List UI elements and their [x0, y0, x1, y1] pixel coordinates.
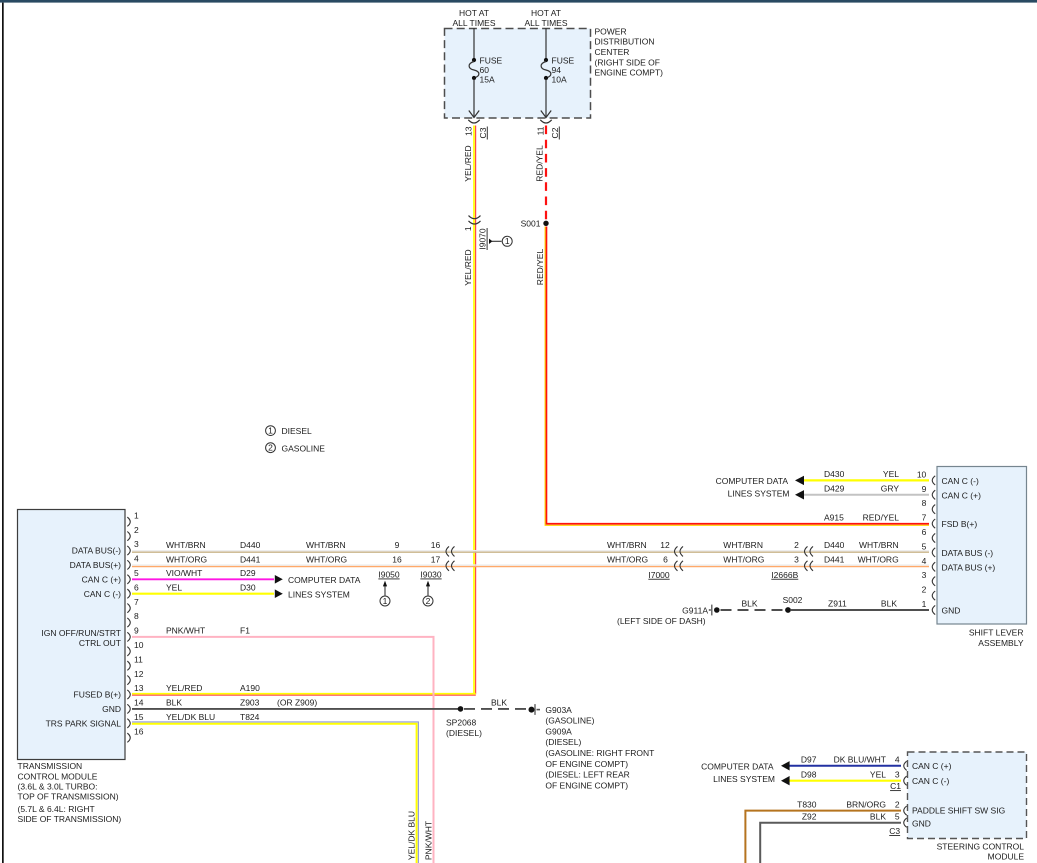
- svg-text:1: 1: [505, 236, 510, 246]
- svg-text:8: 8: [922, 498, 927, 508]
- arrow computer data lines (pin9): [795, 490, 804, 499]
- TCM pin 5 connector: [127, 575, 130, 584]
- svg-text:3: 3: [895, 770, 900, 780]
- svg-text:CAN C (-): CAN C (-): [84, 589, 121, 599]
- svg-text:TRS PARK SIGNAL: TRS PARK SIGNAL: [46, 718, 122, 728]
- TCM pin 11 connector: [127, 661, 130, 670]
- svg-text:94: 94: [552, 65, 562, 75]
- svg-text:WHT/BRN: WHT/BRN: [607, 540, 647, 550]
- wire BLK Z911 S002 to shift lever pin1 GND: [791, 609, 929, 611]
- svg-text:6: 6: [663, 555, 668, 565]
- arrow computer data lines (steering pin4): [781, 761, 790, 770]
- svg-text:15: 15: [134, 712, 144, 722]
- svg-text:WHT/BRN: WHT/BRN: [306, 540, 346, 550]
- svg-text:10: 10: [917, 469, 927, 479]
- svg-text:FUSE: FUSE: [552, 55, 575, 65]
- svg-text:DISTRIBUTION: DISTRIBUTION: [595, 37, 655, 47]
- svg-text:SP2068: SP2068: [446, 718, 477, 728]
- TCM pin 2 connector: [127, 532, 130, 541]
- svg-text:PNK/WHT: PNK/WHT: [166, 626, 205, 636]
- svg-text:ENGINE COMPT): ENGINE COMPT): [595, 68, 664, 78]
- svg-text:10: 10: [134, 640, 144, 650]
- svg-text:17: 17: [431, 555, 441, 565]
- svg-text:LINES SYSTEM: LINES SYSTEM: [713, 774, 775, 784]
- svg-text:2: 2: [426, 596, 431, 606]
- wire: fuse 94 output with arrow into box edge: [545, 79, 547, 117]
- svg-text:12: 12: [134, 669, 144, 679]
- svg-text:OF ENGINE COMPT): OF ENGINE COMPT): [545, 780, 628, 790]
- TCM pin 4 connector: [127, 560, 130, 569]
- power distribution center box: [445, 29, 591, 119]
- svg-text:CTRL OUT: CTRL OUT: [79, 638, 121, 648]
- svg-text:(RIGHT SIDE OF: (RIGHT SIDE OF: [595, 57, 661, 67]
- svg-text:WHT/ORG: WHT/ORG: [306, 555, 347, 565]
- svg-text:YEL: YEL: [166, 582, 182, 592]
- svg-text:TOP OF TRANSMISSION): TOP OF TRANSMISSION): [18, 792, 119, 802]
- connector I2666B on WHT/BRN row: [805, 546, 808, 556]
- TCM pin 1 connector: [127, 517, 130, 526]
- svg-text:2: 2: [268, 443, 273, 453]
- svg-text:2: 2: [794, 540, 799, 550]
- svg-text:I9030: I9030: [420, 570, 442, 580]
- svg-text:D441: D441: [240, 555, 261, 565]
- wire BLK steering pin5 GND: [760, 823, 901, 863]
- connector C3 at PDC (fuse 60 output): [468, 120, 479, 123]
- svg-text:GND: GND: [912, 819, 931, 829]
- svg-text:15A: 15A: [480, 74, 495, 84]
- shift lever pin 5 connector: [932, 548, 935, 557]
- svg-text:WHT/ORG: WHT/ORG: [723, 555, 764, 565]
- wire BLK dashed SP2068 to G903A: [464, 708, 528, 710]
- wire: fuse 60 output with arrow into box edge: [473, 79, 475, 117]
- svg-text:LINES SYSTEM: LINES SYSTEM: [288, 589, 350, 599]
- svg-text:WHT/ORG: WHT/ORG: [607, 555, 648, 565]
- arrow to computer data lines system (pin5): [275, 575, 283, 584]
- svg-text:RED/YEL: RED/YEL: [535, 145, 545, 182]
- svg-text:BRN/ORG: BRN/ORG: [846, 799, 886, 809]
- svg-text:16: 16: [392, 555, 402, 565]
- svg-text:POWER: POWER: [595, 26, 627, 36]
- svg-text:HOT AT: HOT AT: [531, 8, 561, 18]
- svg-text:(3.6L & 3.0L TURBO:: (3.6L & 3.0L TURBO:: [18, 781, 98, 791]
- svg-text:G911A: G911A: [682, 606, 708, 616]
- svg-text:1: 1: [383, 596, 388, 606]
- TCM pin 14 connector: [127, 704, 130, 713]
- svg-text:GND: GND: [102, 704, 121, 714]
- svg-text:SHIFT LEVER: SHIFT LEVER: [969, 628, 1024, 638]
- svg-text:C3: C3: [478, 127, 488, 138]
- svg-text:DATA BUS(+): DATA BUS(+): [70, 560, 122, 570]
- wire: feed into fuse 94: [545, 28, 547, 60]
- svg-text:11: 11: [134, 654, 143, 664]
- shift lever pin 2 connector: [932, 591, 935, 600]
- svg-text:ALL TIMES: ALL TIMES: [525, 18, 568, 28]
- svg-text:1: 1: [268, 425, 273, 435]
- connector I9050 / I9030 on WHT/BRN row: [446, 546, 449, 556]
- svg-text:(DIESEL: LEFT REAR: (DIESEL: LEFT REAR: [545, 770, 629, 780]
- wire RED/YEL dashed from fuse 94 to S001: [545, 126, 547, 221]
- steering control module box: [908, 752, 1027, 839]
- shift lever pin 3 connector: [932, 577, 935, 586]
- svg-text:FUSE: FUSE: [480, 55, 503, 65]
- ground G903A/G909A: [529, 707, 535, 713]
- connector I7000 on WHT/BRN row: [675, 546, 678, 556]
- svg-text:RED/YEL: RED/YEL: [535, 249, 545, 286]
- svg-text:LINES SYSTEM: LINES SYSTEM: [728, 488, 790, 498]
- wire PNK/WHT vertical overlay (crosses pin13/14 wires): [433, 688, 435, 705]
- TCM pin 9 connector: [127, 632, 130, 641]
- svg-text:VIO/WHT: VIO/WHT: [166, 568, 202, 578]
- svg-text:3: 3: [922, 570, 927, 580]
- svg-text:A190: A190: [240, 683, 260, 693]
- svg-text:(5.7L & 6.4L: RIGHT: (5.7L & 6.4L: RIGHT: [18, 804, 95, 814]
- wire BRN/ORG steering pin2 paddle shift sw sig: [745, 811, 901, 863]
- legend circled 1 DIESEL: [266, 426, 276, 436]
- svg-text:PNK/WHT: PNK/WHT: [423, 821, 433, 860]
- wire BLK TCM pin14 GND to SP2068: [132, 708, 461, 710]
- TCM pin 16 connector: [127, 733, 130, 742]
- svg-text:4: 4: [134, 554, 139, 564]
- svg-text:DATA BUS (-): DATA BUS (-): [942, 548, 994, 558]
- steering control pin 3 connector: [904, 776, 907, 785]
- svg-text:CONTROL MODULE: CONTROL MODULE: [18, 771, 98, 781]
- transmission control module box: [18, 510, 126, 760]
- svg-text:ALL TIMES: ALL TIMES: [453, 18, 496, 28]
- svg-text:GASOLINE: GASOLINE: [282, 443, 326, 453]
- svg-text:(GASOLINE: RIGHT FRONT: (GASOLINE: RIGHT FRONT: [545, 748, 654, 758]
- svg-text:FSD B(+): FSD B(+): [942, 519, 978, 529]
- svg-text:1: 1: [134, 510, 139, 520]
- svg-text:WHT/BRN: WHT/BRN: [166, 540, 206, 550]
- svg-text:CAN C (+): CAN C (+): [942, 490, 982, 500]
- svg-text:BLK: BLK: [166, 698, 182, 708]
- svg-text:9: 9: [922, 484, 927, 494]
- svg-text:BLK: BLK: [491, 698, 507, 708]
- svg-text:STEERING CONTROL: STEERING CONTROL: [937, 841, 1025, 851]
- svg-text:D440: D440: [824, 540, 845, 550]
- TCM pin 10 connector: [127, 647, 130, 656]
- TCM pin 15 connector: [127, 719, 130, 728]
- wire: feed into fuse 60: [473, 28, 475, 60]
- svg-text:YEL/DK BLU: YEL/DK BLU: [406, 811, 416, 860]
- svg-text:PADDLE SHIFT SW SIG: PADDLE SHIFT SW SIG: [912, 806, 1005, 816]
- svg-text:8: 8: [134, 611, 139, 621]
- svg-text:I7000: I7000: [648, 570, 670, 580]
- wire WHT/BRN data bus (-) row TCM pin3 to shift lever pin5: [132, 550, 929, 552]
- svg-text:6: 6: [922, 527, 927, 537]
- svg-text:CAN C (-): CAN C (-): [942, 476, 979, 486]
- svg-text:HOT AT: HOT AT: [459, 8, 489, 18]
- svg-text:D430: D430: [824, 469, 845, 479]
- wire YEL/DK BLU TCM pin15 TRS park signal: [132, 724, 417, 863]
- arrow to computer data lines system (pin6): [275, 589, 283, 598]
- svg-text:Z911: Z911: [828, 599, 847, 609]
- svg-text:4: 4: [895, 755, 900, 765]
- wire YEL steering pin3 CAN C (-): [789, 780, 901, 782]
- svg-text:D429: D429: [824, 484, 845, 494]
- svg-text:BLK: BLK: [870, 812, 886, 822]
- svg-text:16: 16: [431, 540, 441, 550]
- steering control pin 4 connector: [904, 761, 907, 770]
- shift lever pin 6 connector: [932, 533, 935, 542]
- svg-text:C3: C3: [889, 826, 900, 836]
- svg-text:(LEFT SIDE OF DASH): (LEFT SIDE OF DASH): [617, 616, 706, 626]
- svg-text:BLK: BLK: [881, 599, 897, 609]
- svg-text:G909A: G909A: [545, 726, 572, 736]
- svg-text:I9050: I9050: [378, 570, 400, 580]
- svg-text:Z903: Z903: [240, 698, 260, 708]
- shift lever pin 7 connector: [932, 519, 935, 528]
- svg-text:T830: T830: [797, 799, 817, 809]
- svg-text:COMPUTER DATA: COMPUTER DATA: [701, 762, 774, 772]
- wire WHT/ORG data bus (+) row TCM pin4 to shift lever pin4: [132, 564, 929, 566]
- callout arrow circled 1 to I9070: [492, 240, 502, 242]
- svg-text:ASSEMBLY: ASSEMBLY: [978, 638, 1024, 648]
- svg-text:I2666B: I2666B: [771, 570, 798, 580]
- wire YEL shift lever pin10 CAN C (-): [804, 479, 930, 481]
- svg-text:C1: C1: [890, 781, 901, 791]
- svg-text:YEL: YEL: [883, 469, 899, 479]
- svg-text:2: 2: [922, 585, 927, 595]
- top border frame line: [0, 0, 1037, 3]
- fuse 60 15A: [472, 58, 476, 62]
- svg-text:COMPUTER DATA: COMPUTER DATA: [716, 476, 789, 486]
- svg-text:3: 3: [794, 555, 799, 565]
- wire YEL/RED TCM pin13 fused B(+) joins fuse-60 wire: [132, 693, 476, 695]
- svg-text:DATA BUS(-): DATA BUS(-): [72, 546, 121, 556]
- wire YEL TCM pin6 CAN C (-): [132, 593, 274, 595]
- shift lever assembly box: [937, 467, 1027, 625]
- svg-text:D97: D97: [801, 755, 817, 765]
- svg-text:16: 16: [134, 726, 144, 736]
- svg-text:1: 1: [463, 226, 473, 231]
- shift lever pin 1 connector: [932, 605, 935, 614]
- svg-text:(DIESEL): (DIESEL): [545, 737, 581, 747]
- svg-text:T824: T824: [240, 712, 260, 722]
- svg-text:DATA BUS (+): DATA BUS (+): [942, 562, 996, 572]
- svg-text:WHT/BRN: WHT/BRN: [859, 540, 899, 550]
- svg-text:SIDE OF TRANSMISSION): SIDE OF TRANSMISSION): [18, 814, 122, 824]
- svg-text:12: 12: [660, 540, 670, 550]
- wire PNK/WHT TCM pin9 ign off/run/strt ctrl out: [132, 637, 434, 863]
- svg-text:GND: GND: [942, 606, 961, 616]
- svg-text:OF ENGINE COMPT): OF ENGINE COMPT): [545, 759, 628, 769]
- svg-text:10A: 10A: [552, 74, 567, 84]
- wire YEL/RED vertical from fuse 60 (upper): [473, 126, 475, 695]
- svg-text:YEL: YEL: [870, 770, 886, 780]
- svg-text:IGN OFF/RUN/STRT: IGN OFF/RUN/STRT: [41, 628, 121, 638]
- svg-text:13: 13: [463, 126, 473, 136]
- TCM pin 13 connector: [127, 690, 130, 699]
- svg-text:14: 14: [134, 698, 144, 708]
- svg-text:5: 5: [922, 541, 927, 551]
- svg-text:A915: A915: [824, 512, 844, 522]
- svg-text:YEL/RED: YEL/RED: [463, 249, 473, 285]
- svg-text:11: 11: [535, 126, 545, 135]
- svg-text:WHT/ORG: WHT/ORG: [858, 555, 899, 565]
- svg-text:S001: S001: [521, 218, 541, 228]
- TCM pin 12 connector: [127, 676, 130, 685]
- svg-text:YEL/RED: YEL/RED: [463, 145, 473, 181]
- arrow computer data lines (steering pin3): [781, 776, 790, 785]
- svg-text:9: 9: [134, 626, 139, 636]
- TCM pin 8 connector: [127, 618, 130, 627]
- svg-text:YEL/DK BLU: YEL/DK BLU: [166, 712, 215, 722]
- svg-text:5: 5: [895, 812, 900, 822]
- TCM pin 6 connector: [127, 589, 130, 598]
- svg-text:4: 4: [922, 556, 927, 566]
- svg-text:FUSED B(+): FUSED B(+): [74, 690, 122, 700]
- svg-text:TRANSMISSION: TRANSMISSION: [18, 761, 83, 771]
- svg-text:7: 7: [922, 513, 927, 523]
- shift lever pin 10 connector: [932, 476, 935, 485]
- svg-text:7: 7: [134, 597, 139, 607]
- svg-text:WHT/ORG: WHT/ORG: [166, 555, 207, 565]
- svg-text:GRY: GRY: [881, 484, 900, 494]
- svg-text:YEL/RED: YEL/RED: [166, 683, 202, 693]
- steering control pin 2 connector: [904, 806, 907, 815]
- svg-text:DK BLU/WHT: DK BLU/WHT: [834, 755, 886, 765]
- svg-text:2: 2: [134, 525, 139, 535]
- wire VIO/WHT TCM pin5 CAN C (+): [132, 578, 274, 580]
- svg-text:13: 13: [134, 683, 144, 693]
- svg-text:WHT/BRN: WHT/BRN: [723, 540, 763, 550]
- connector C2 at PDC (fuse 94 output): [540, 120, 551, 123]
- svg-text:RED/YEL: RED/YEL: [863, 512, 900, 522]
- splice SP2068: [458, 706, 464, 712]
- svg-text:60: 60: [480, 65, 490, 75]
- arrow computer data lines (pin10): [795, 476, 804, 485]
- svg-text:6: 6: [134, 582, 139, 592]
- TCM pin 7 connector: [127, 604, 130, 613]
- svg-text:(DIESEL): (DIESEL): [446, 728, 482, 738]
- TCM pin 3 connector: [127, 546, 130, 555]
- svg-text:D29: D29: [240, 568, 256, 578]
- fuse 94 10A: [544, 58, 548, 62]
- svg-text:(GASOLINE): (GASOLINE): [545, 716, 594, 726]
- shift lever pin 9 connector: [932, 490, 935, 499]
- svg-text:D30: D30: [240, 582, 256, 592]
- svg-text:Z92: Z92: [802, 812, 817, 822]
- svg-text:CAN C (+): CAN C (+): [82, 574, 122, 584]
- wire DK BLU/WHT steering pin4 CAN C (+): [789, 765, 901, 767]
- svg-text:F1: F1: [240, 626, 250, 636]
- steering control pin 5 connector: [904, 818, 907, 827]
- svg-text:S002: S002: [783, 595, 803, 605]
- connector I7000 on WHT/ORG row: [675, 561, 678, 571]
- svg-text:MODULE: MODULE: [988, 852, 1025, 862]
- wire BLK dashed G911A to S002: [721, 609, 786, 611]
- wire GRY shift lever pin9 CAN C (+): [804, 494, 930, 496]
- svg-text:2: 2: [895, 799, 900, 809]
- wire RED/YEL solid from S001 down and right to shift lever pin 7: [546, 227, 929, 524]
- svg-text:9: 9: [395, 540, 400, 550]
- svg-text:3: 3: [134, 539, 139, 549]
- svg-text:BLK: BLK: [741, 599, 757, 609]
- svg-text:CAN C (+): CAN C (+): [912, 761, 952, 771]
- svg-text:I9070: I9070: [478, 228, 488, 250]
- svg-text:CAN C (-): CAN C (-): [912, 776, 949, 786]
- svg-text:C2: C2: [550, 127, 560, 138]
- connector I9050 / I9030 on WHT/ORG row: [446, 561, 449, 571]
- svg-text:DIESEL: DIESEL: [282, 426, 313, 436]
- svg-text:1: 1: [922, 599, 927, 609]
- legend circled 2 GASOLINE: [266, 443, 276, 453]
- left border frame line: [2, 3, 4, 863]
- svg-text:D441: D441: [824, 555, 845, 565]
- svg-text:CENTER: CENTER: [595, 47, 630, 57]
- connector I2666B on WHT/ORG row: [805, 561, 808, 571]
- shift lever pin 8 connector: [932, 505, 935, 514]
- svg-text:G903A: G903A: [545, 705, 572, 715]
- connector I9070 inline on YEL/RED wire: [469, 216, 481, 219]
- svg-text:5: 5: [134, 568, 139, 578]
- svg-text:(OR Z909): (OR Z909): [277, 698, 317, 708]
- svg-text:D98: D98: [801, 770, 817, 780]
- svg-text:COMPUTER DATA: COMPUTER DATA: [288, 575, 361, 585]
- svg-text:D440: D440: [240, 540, 261, 550]
- shift lever pin 4 connector: [932, 562, 935, 571]
